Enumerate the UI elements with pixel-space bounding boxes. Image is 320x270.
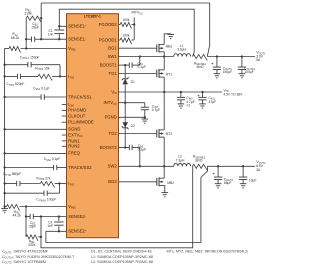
capacitor C1 1nF sense filter <box>48 25 64 40</box>
capacitor C2 1nF sense filter <box>47 215 63 232</box>
capacitor CIN1 47uF polarized <box>197 91 216 108</box>
svg-text:RUN2: RUN2 <box>68 144 80 149</box>
svg-text:×2: ×2 <box>186 104 190 108</box>
svg-text:150µF: 150µF <box>223 70 232 74</box>
svg-text:TG1: TG1 <box>109 71 118 76</box>
wire VOUT1 row <box>207 55 255 57</box>
wire VIN row <box>119 91 223 93</box>
svg-text:COUT2: SANYO 10TPB68M: COUT2: SANYO 10TPB68M <box>2 260 46 265</box>
wire SENSE2+ sense rail inner <box>46 166 208 242</box>
wire SGND row <box>3 128 66 130</box>
inductor L2 7.3uH <box>174 155 191 167</box>
svg-text:7.3µH: 7.3µH <box>176 158 185 162</box>
svg-text:44.2k: 44.2k <box>13 214 22 218</box>
svg-text:100µF: 100µF <box>244 70 253 74</box>
svg-text:MB2: MB2 <box>167 181 174 185</box>
wire VOUT2 sense rail outer <box>40 166 193 248</box>
wire SW2 row <box>119 165 174 167</box>
svg-text:PGOOD2: PGOOD2 <box>99 22 118 27</box>
svg-text:MT1, MT2, MB1, MB2: INFINEON B: MT1, MT2, MB1, MB2: INFINEON BSZ097N04LS <box>167 250 249 254</box>
wire SW1 row <box>119 56 174 58</box>
U1 right pin name labels <box>99 22 118 184</box>
resistor RB1 215k <box>24 8 41 22</box>
wire SENSE2- row <box>41 216 67 218</box>
svg-text:COUT1A: TAIYO YUDEN JMK325BJ10: COUT1A: TAIYO YUDEN JMK325BJ107MM-T <box>2 255 75 260</box>
capacitor CB2 39pF feedback <box>26 214 41 229</box>
capacitor CIN2 4.7uF x2 <box>177 91 195 108</box>
wire MB1 drain to ground <box>164 34 171 45</box>
capacitor CITH1 820pF <box>3 74 24 87</box>
svg-text:BOOST1: BOOST1 <box>100 62 118 67</box>
svg-text:SENSE1+: SENSE1+ <box>68 24 87 29</box>
svg-text:100k: 100k <box>122 34 130 38</box>
wire VOUT1 right vertical <box>40 3 42 39</box>
ground MB1 <box>167 34 174 38</box>
wire ILIM stub <box>62 104 67 106</box>
node feedback junction dots <box>25 17 42 50</box>
svg-text:SENSE2+: SENSE2+ <box>68 229 87 234</box>
wire SENSE1+ row <box>59 25 66 27</box>
transistor MB2 <box>157 177 174 186</box>
svg-text:TG2: TG2 <box>109 131 118 136</box>
net INTVCC pullup rail <box>132 11 144 40</box>
node BOOST1 junction <box>124 64 126 66</box>
diode D2 CMDSH-4E <box>122 122 135 129</box>
wire TG2 gate <box>119 133 157 135</box>
svg-text:3.3µH: 3.3µH <box>177 48 186 52</box>
transistor MT1 <box>157 69 173 78</box>
wire BOOST2 to SW2 <box>139 148 141 168</box>
wire RUN2 stub <box>62 145 67 147</box>
ground CINT/PGND <box>142 119 149 123</box>
capacitor CINT 4.7uF <box>141 103 161 119</box>
ground MB2 <box>162 193 169 197</box>
wire MB2 drain to SW2 <box>163 166 165 178</box>
capacitor COUT2 68uF polarized <box>212 166 233 188</box>
wire MT1 source to SW1 <box>163 57 165 70</box>
wire RUN1 stub <box>62 140 67 142</box>
svg-text:TRACK/SS1: TRACK/SS1 <box>68 94 92 99</box>
svg-text:68µF: 68µF <box>224 181 232 185</box>
capacitor CITH2A 100pF <box>3 191 59 203</box>
wire MT2 source to SW2 <box>163 137 165 167</box>
svg-text:SENSE1–: SENSE1– <box>68 37 87 42</box>
svg-text:CLKOUT: CLKOUT <box>68 113 85 118</box>
wire VOUT2 row <box>207 165 255 167</box>
svg-text:SENSE2–: SENSE2– <box>68 214 87 219</box>
svg-text:MB1: MB1 <box>166 44 173 48</box>
svg-text:10µF: 10µF <box>249 178 257 182</box>
wire BG2 gate <box>119 181 157 183</box>
capacitor 10uF output <box>239 166 256 188</box>
svg-text:SGND: SGND <box>68 127 80 132</box>
svg-text:68.1k: 68.1k <box>11 36 20 40</box>
svg-text:100k: 100k <box>122 18 130 22</box>
wire MT2 drain to VIN <box>163 92 165 130</box>
wire VFB1 left vertical <box>25 18 27 48</box>
svg-text:432k: 432k <box>28 243 36 247</box>
capacitor COUT1 150uF polarized <box>211 57 232 78</box>
svg-text:D1, D2: CENTRAL SEMI CMDSH-4E: D1, D2: CENTRAL SEMI CMDSH-4E <box>91 250 152 254</box>
resistor RA2 44.2k <box>5 204 67 217</box>
note component table <box>2 250 248 265</box>
svg-text:TRACK/SS2: TRACK/SS2 <box>68 165 92 170</box>
svg-text:39pF: 39pF <box>29 224 37 228</box>
wire ITH2 branch vertical <box>58 182 60 193</box>
svg-text:BG1: BG1 <box>108 46 117 51</box>
U1 left pin name labels <box>68 24 94 234</box>
resistor RA1 68.1k <box>5 32 67 52</box>
wire VFB2 left vertical <box>25 205 27 237</box>
wire PLLIN/MODE stub <box>62 121 67 123</box>
capacitor COUT1A 100uF <box>238 57 256 78</box>
svg-text:PGOOD1: PGOOD1 <box>99 37 118 42</box>
node BOOST2 junction <box>124 146 126 148</box>
svg-text:0.1µF: 0.1µF <box>138 148 147 152</box>
svg-text:L2: SUMIDA CDEP105NP-7R3MC-88: L2: SUMIDA CDEP105NP-7R3MC-88 <box>91 260 153 264</box>
resistor RSENSE1 5m <box>193 54 208 68</box>
resistor RITH2 27k <box>20 176 67 187</box>
wire BG1 gate <box>119 47 157 49</box>
wire FREQ row <box>3 152 66 154</box>
svg-text:FREQ: FREQ <box>68 151 80 156</box>
wire CLKOUT stub <box>62 115 67 117</box>
node INTVCC pin junction <box>124 102 126 104</box>
wire TG1 gate <box>119 73 157 75</box>
capacitor CB1 15pF feedback <box>26 22 41 42</box>
resistor RITH1 15k <box>21 66 67 80</box>
wire INTVCC pin row <box>119 102 145 104</box>
svg-text:MT2: MT2 <box>166 132 173 136</box>
wire EXTVCC stub <box>62 134 67 136</box>
resistor RSENSE2 8m <box>193 155 208 171</box>
diode D1 CMDSH-4E <box>122 78 135 85</box>
resistor pullup 100k PGOOD1 <box>119 34 135 45</box>
svg-text:D2: D2 <box>131 124 135 128</box>
svg-text:BOOST2: BOOST2 <box>100 145 118 150</box>
wire INTVCC boost rail <box>124 65 126 147</box>
resistor pullup 100k PGOOD2 <box>119 18 135 29</box>
ground SGND rail bottom <box>1 205 8 212</box>
wire VOUT1 sense rail outer <box>41 3 210 57</box>
svg-text:PHASMD: PHASMD <box>68 108 86 113</box>
svg-text:8mΩ: 8mΩ <box>195 158 203 162</box>
capacitor CB2 0.1uF bootstrap <box>119 144 147 152</box>
svg-text:LTC3857-1: LTC3857-1 <box>84 14 101 18</box>
svg-text:1nF: 1nF <box>48 33 54 37</box>
svg-text:SW2: SW2 <box>108 164 118 169</box>
svg-text:SW1: SW1 <box>108 54 118 59</box>
wire MB2 source to ground <box>163 185 166 192</box>
svg-text:MT1: MT1 <box>166 72 173 76</box>
wire PGND row <box>119 116 146 118</box>
svg-text:15pF: 15pF <box>31 25 39 29</box>
wire ITH1 branch vertical <box>59 65 61 78</box>
svg-text:RITH2 27k: RITH2 27k <box>36 176 50 181</box>
svg-text:RUN1: RUN1 <box>68 138 80 143</box>
wire SENSE2+ row <box>46 230 67 232</box>
svg-text:D1: D1 <box>131 80 135 84</box>
wire BOOST1 to SW1 <box>139 55 141 65</box>
op-amp U1 LTC3857-1 controller IC body <box>67 14 119 238</box>
svg-text:1nF: 1nF <box>47 224 53 228</box>
svg-text:5mΩ: 5mΩ <box>196 65 204 69</box>
net VOUT1 label <box>256 50 266 63</box>
net VOUT2 label <box>256 159 266 172</box>
svg-text:PGND: PGND <box>105 115 117 120</box>
svg-text:4.5V TO 38V: 4.5V TO 38V <box>223 93 243 97</box>
svg-text:0.1µF: 0.1µF <box>138 65 147 69</box>
svg-text:4.7µF: 4.7µF <box>152 108 161 112</box>
capacitor CB1 0.1uF bootstrap <box>119 61 147 69</box>
svg-text:BG2: BG2 <box>108 179 117 184</box>
svg-text:RITH1 15k: RITH1 15k <box>35 66 49 71</box>
svg-text:PLLIN/MODE: PLLIN/MODE <box>68 120 94 125</box>
wire MT1 drain to VIN <box>163 77 165 93</box>
svg-text:L1: SUMIDA CDEP105NP-3R2MC-88: L1: SUMIDA CDEP105NP-3R2MC-88 <box>91 255 153 259</box>
wire SENSE1+ sense rail inner <box>59 9 194 56</box>
capacitor CITH1A 150pF <box>3 55 60 67</box>
transistor MB1 <box>157 44 173 53</box>
wire PHASMD stub <box>62 109 67 111</box>
svg-text:47µF: 47µF <box>209 100 217 104</box>
inductor L1 3.3uH <box>174 44 191 57</box>
transistor MT2 <box>157 129 173 138</box>
svg-text:215k: 215k <box>24 12 32 16</box>
resistor RB2 432k <box>26 235 41 247</box>
wire SENSE1- row <box>41 38 66 40</box>
capacitor CSS2 0.1uF <box>3 157 66 170</box>
capacitor CITH2 680pF <box>3 172 21 186</box>
wire SGND left rail <box>4 49 6 207</box>
net VIN label <box>223 87 243 96</box>
wire MB1 source to SW1 <box>163 52 165 58</box>
capacitor CSS1 0.1uF <box>3 86 66 99</box>
